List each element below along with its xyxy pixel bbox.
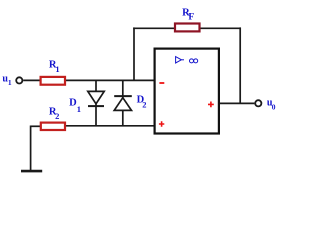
diode D1 wire: [95, 80, 97, 125]
op-amp U1 box: [155, 49, 219, 134]
plus sign output: [208, 102, 214, 108]
ground: [21, 170, 42, 173]
wire input: [23, 79, 40, 81]
wire R2 left stub: [31, 125, 41, 127]
wire ground vertical: [30, 126, 32, 171]
diode D1 cathode bar: [88, 105, 104, 107]
diode D2 triangle: [114, 98, 131, 111]
svg-text:1: 1: [8, 78, 12, 87]
svg-text:2: 2: [142, 100, 146, 110]
resistor R1: [41, 77, 65, 85]
svg-text:F: F: [188, 13, 194, 23]
diode D2 cathode bar: [114, 95, 132, 97]
diode D1 triangle: [88, 91, 104, 103]
svg-text:1: 1: [55, 64, 59, 74]
wire bottom (R2 to op-amp): [66, 125, 155, 127]
wire output: [219, 102, 255, 104]
wire top right segment: [200, 27, 241, 29]
wire top left segment: [133, 27, 175, 29]
op-amp symbol triangle: [176, 57, 182, 63]
terminal u0: [255, 100, 261, 106]
svg-text:0: 0: [272, 103, 276, 112]
svg-text:1: 1: [77, 104, 81, 114]
wire R1 to op-amp: [66, 79, 155, 81]
wire feedback right vertical: [239, 27, 241, 103]
op-amp symbol dash: [182, 59, 184, 61]
terminal u1: [16, 77, 22, 83]
svg-text:2: 2: [55, 111, 59, 121]
op-amp symbol infinity: [190, 59, 194, 63]
minus sign inverting input: [159, 82, 164, 84]
resistor R2: [41, 123, 65, 130]
wire feedback left vertical: [133, 27, 135, 81]
plus sign noninverting input: [159, 121, 164, 126]
resistor RF: [175, 24, 200, 32]
diode D2 wire: [122, 80, 124, 125]
